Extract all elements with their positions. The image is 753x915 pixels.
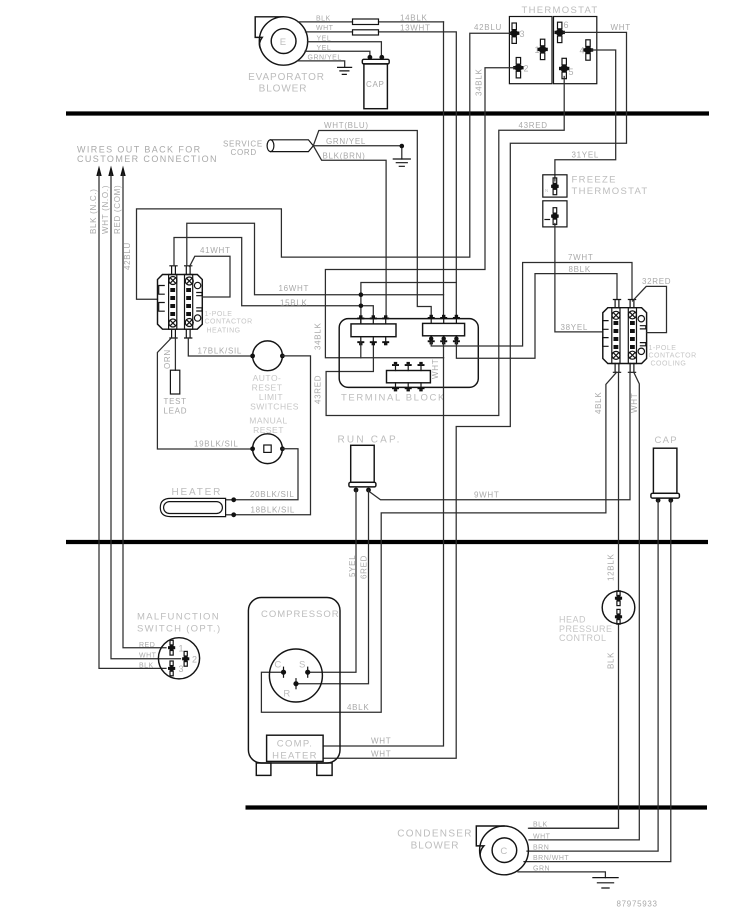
service cord bbox=[267, 140, 313, 152]
customer wire RED (COM) with arrow bbox=[113, 166, 166, 648]
malfunction terminal 2 bbox=[182, 651, 197, 666]
thermostat terminal 5 bbox=[559, 58, 574, 78]
wire GRN condenser blower to ground bbox=[518, 872, 605, 878]
malfunction switch S6 bbox=[158, 638, 199, 679]
svg-text:S: S bbox=[299, 660, 307, 671]
svg-text:14BLK: 14BLK bbox=[400, 13, 428, 22]
svg-text:BLK(BRN): BLK(BRN) bbox=[323, 152, 366, 161]
svg-text:HEATER: HEATER bbox=[172, 487, 223, 498]
freeze thermostat terminal lower bbox=[545, 208, 559, 225]
wire 42BLU thermostat T3 to heating contactor bbox=[137, 33, 511, 299]
wire 5YEL run cap to compressor S bbox=[310, 490, 356, 672]
svg-text:TEST: TEST bbox=[164, 397, 187, 406]
terminal block enclosure bbox=[339, 319, 478, 388]
svg-text:CORD: CORD bbox=[231, 148, 257, 157]
svg-text:8BLK: 8BLK bbox=[569, 265, 591, 274]
svg-text:E: E bbox=[280, 37, 288, 48]
compressor leg left bbox=[256, 763, 271, 775]
contactor K1 top pin right bbox=[185, 266, 192, 275]
svg-text:WIRES OUT BACK FOR: WIRES OUT BACK FOR bbox=[77, 144, 202, 154]
junction dot 15BLK bbox=[359, 304, 364, 309]
wire 43RED thermostat T5 to terminal block bbox=[326, 77, 564, 416]
svg-text:RED (COM): RED (COM) bbox=[113, 185, 122, 234]
limit switch manual-reset S4 bbox=[250, 434, 285, 464]
svg-text:31YEL: 31YEL bbox=[572, 151, 600, 160]
label HEAD PRESSURE CONTROL bbox=[559, 615, 613, 644]
contactor K1 top pin left bbox=[170, 266, 177, 275]
svg-text:LIMIT: LIMIT bbox=[259, 392, 283, 402]
svg-text:CONTROL: CONTROL bbox=[559, 633, 607, 643]
svg-text:1: 1 bbox=[179, 644, 184, 654]
junction dot heater lower bbox=[231, 512, 236, 517]
bus line top bbox=[66, 111, 709, 115]
svg-text:15BLK: 15BLK bbox=[280, 298, 308, 307]
svg-text:RED: RED bbox=[139, 642, 155, 649]
svg-text:AUTO-: AUTO- bbox=[253, 373, 282, 383]
run capacitor C2 bbox=[349, 445, 376, 487]
terminal dot run cap left bbox=[354, 488, 359, 493]
svg-text:SWITCH (OPT.): SWITCH (OPT.) bbox=[137, 624, 221, 635]
svg-text:LEAD: LEAD bbox=[164, 407, 188, 416]
svg-text:BLOWER: BLOWER bbox=[411, 841, 460, 852]
svg-text:THERMOSTAT: THERMOSTAT bbox=[522, 5, 599, 16]
wire GRN/YEL to ground bbox=[298, 61, 345, 67]
svg-text:WHT: WHT bbox=[371, 749, 391, 758]
svg-text:YEL: YEL bbox=[317, 35, 332, 42]
svg-text:6: 6 bbox=[564, 20, 569, 30]
wire GRN/YEL service cord to ground bbox=[313, 146, 402, 159]
svg-text:MALFUNCTION: MALFUNCTION bbox=[137, 612, 220, 623]
wire BLK evaporator bbox=[298, 21, 444, 23]
label AUTO-RESET bbox=[249, 373, 299, 435]
terminal strip TB2 right bbox=[423, 315, 465, 345]
svg-text:THERMOSTAT: THERMOSTAT bbox=[572, 186, 649, 197]
capacitor CAP (condenser) bbox=[651, 435, 680, 498]
wire WHT thermostat T6 long run to comp heater bbox=[323, 32, 626, 758]
svg-text:BLK: BLK bbox=[316, 16, 331, 23]
junction dot right strip screw1 bbox=[429, 337, 433, 341]
svg-text:RESET: RESET bbox=[252, 383, 283, 393]
svg-text:CAP: CAP bbox=[655, 435, 678, 446]
wire 14BLK vertical bbox=[443, 22, 445, 317]
svg-text:1-POLE: 1-POLE bbox=[649, 345, 677, 352]
label EVAPORATOR BLOWER bbox=[248, 72, 325, 95]
wire 16WHT contactor pin to terminal block bbox=[187, 223, 444, 294]
junction dot service ground bbox=[400, 144, 405, 149]
svg-text:5YEL: 5YEL bbox=[348, 555, 357, 577]
svg-text:COMP.: COMP. bbox=[277, 739, 313, 750]
svg-text:20BLK/SIL: 20BLK/SIL bbox=[250, 490, 295, 499]
junction dot 16WHT bbox=[359, 292, 364, 297]
terminal dot cap right post bbox=[379, 55, 384, 60]
terminal dot condenser cap left bbox=[656, 498, 661, 503]
contactor K2 bottom pin right bbox=[628, 364, 635, 373]
svg-text:2: 2 bbox=[524, 63, 529, 73]
svg-text:WHT: WHT bbox=[431, 359, 440, 379]
svg-text:3: 3 bbox=[179, 664, 184, 674]
svg-text:GRN/YEL: GRN/YEL bbox=[326, 137, 366, 146]
wire 17BLK/SIL contactor to auto reset bbox=[188, 338, 252, 356]
ground symbol service cord bbox=[393, 159, 410, 166]
contactor K2 cooling bbox=[603, 308, 647, 364]
wire 15BLK contactor pin to terminal block bbox=[174, 238, 373, 319]
svg-text:BRN/WHT: BRN/WHT bbox=[533, 855, 569, 862]
svg-text:TERMINAL BLOCK: TERMINAL BLOCK bbox=[341, 393, 446, 404]
wire 6RED run cap to compressor R bbox=[299, 490, 369, 684]
thermostat terminal 4 bbox=[580, 40, 594, 60]
wire YEL upper to cap bbox=[308, 42, 382, 56]
compressor leg right bbox=[317, 763, 332, 775]
svg-text:HEATING: HEATING bbox=[207, 328, 241, 335]
terminal strip TB1 left bbox=[351, 315, 396, 345]
contactor K2 bottom pin left bbox=[613, 364, 620, 373]
contactor K1 bottom pin left bbox=[170, 329, 177, 338]
svg-text:FREEZE: FREEZE bbox=[572, 175, 617, 186]
terminal dot run cap right bbox=[366, 488, 371, 493]
svg-text:17BLK/SIL: 17BLK/SIL bbox=[198, 347, 243, 356]
wire WHT right strip to comp heater bbox=[323, 341, 443, 746]
thermostat terminal 6 bbox=[555, 20, 569, 43]
svg-text:42BLU: 42BLU bbox=[123, 242, 132, 270]
wire 38YEL freeze thermostat to cooling contactor bbox=[555, 224, 603, 332]
label wires out back for customer connection bbox=[77, 144, 218, 164]
terminal strip TB3 bottom bbox=[387, 362, 431, 392]
wire YEL lower to cap bbox=[305, 51, 370, 55]
svg-text:GRN/YEL: GRN/YEL bbox=[308, 55, 342, 62]
freeze thermostat terminal upper bbox=[545, 178, 559, 195]
comp heater R2 bbox=[267, 735, 324, 761]
customer wire WHT (N.O.) with arrow bbox=[101, 166, 180, 659]
customer wire BLK (N.C.) with arrow bbox=[89, 166, 166, 669]
ground symbol condenser bbox=[593, 878, 618, 888]
labels condenser wires bbox=[533, 822, 569, 873]
svg-text:RUN CAP.: RUN CAP. bbox=[338, 435, 402, 446]
head pressure control S5 bbox=[602, 591, 635, 624]
label MALFUNCTION SWITCH (OPT.) bbox=[137, 612, 221, 635]
wire labels evaporator bbox=[308, 13, 431, 61]
wire WHT evaporator (13WHT) bbox=[306, 32, 457, 317]
junction dot right strip screw3 bbox=[454, 337, 458, 341]
compressor terminal C bbox=[274, 660, 286, 678]
svg-text:WHT: WHT bbox=[533, 833, 551, 840]
svg-text:CONTACTOR: CONTACTOR bbox=[205, 319, 253, 326]
wire BLK condenser blower bbox=[529, 827, 619, 829]
svg-text:7WHT: 7WHT bbox=[568, 253, 593, 262]
thermostat terminal 1 bbox=[535, 39, 548, 59]
bus line middle bbox=[66, 540, 708, 544]
svg-text:WHT: WHT bbox=[316, 25, 334, 32]
svg-text:34BLK: 34BLK bbox=[475, 68, 484, 96]
thermostat terminal 3 bbox=[509, 23, 525, 43]
svg-text:4: 4 bbox=[580, 46, 585, 56]
wire 8BLK right strip to cooling contactor bbox=[456, 274, 617, 359]
svg-text:34BLK: 34BLK bbox=[314, 322, 323, 350]
junction dot heater upper bbox=[231, 497, 236, 502]
contactor K2 top pin left bbox=[613, 300, 620, 308]
svg-text:GRN: GRN bbox=[533, 865, 550, 872]
svg-text:43RED: 43RED bbox=[314, 375, 323, 404]
wire 20BLK/SIL manual reset to heater bbox=[234, 449, 298, 500]
svg-text:C: C bbox=[500, 846, 508, 857]
svg-text:N: N bbox=[545, 188, 549, 193]
svg-text:CAP: CAP bbox=[366, 80, 385, 89]
wire terminal block strip riser bbox=[361, 283, 456, 324]
label 1-POLE CONTACTOR COOLING bbox=[649, 345, 697, 368]
fuse link F1 bbox=[353, 19, 379, 25]
svg-text:YEL: YEL bbox=[317, 45, 332, 52]
svg-text:HEATER: HEATER bbox=[272, 751, 318, 762]
svg-text:BLK: BLK bbox=[607, 652, 616, 669]
svg-text:WHT(BLU): WHT(BLU) bbox=[324, 121, 369, 130]
svg-text:41WHT: 41WHT bbox=[200, 246, 231, 255]
svg-text:5: 5 bbox=[569, 67, 574, 77]
svg-text:19BLK/SIL: 19BLK/SIL bbox=[194, 439, 239, 448]
svg-text:4BLK: 4BLK bbox=[594, 392, 603, 414]
svg-text:WHT: WHT bbox=[371, 737, 391, 746]
bus line bottom bbox=[246, 805, 708, 809]
wire 31YEL thermostat T4 to freeze thermostat bbox=[555, 50, 616, 181]
svg-text:SWITCHES: SWITCHES bbox=[250, 402, 299, 412]
wire BLK(BRN) service cord to terminal block bbox=[313, 146, 386, 319]
svg-text:WHT: WHT bbox=[611, 23, 631, 32]
capacitor CAP (evaporator) bbox=[362, 59, 389, 108]
svg-text:32RED: 32RED bbox=[642, 277, 671, 286]
svg-text:12BLK: 12BLK bbox=[607, 553, 616, 581]
svg-text:BRN: BRN bbox=[533, 845, 549, 852]
svg-text:R: R bbox=[283, 689, 291, 700]
svg-text:9WHT: 9WHT bbox=[474, 490, 499, 499]
svg-text:18BLK/SIL: 18BLK/SIL bbox=[251, 506, 296, 515]
svg-text:WHT: WHT bbox=[630, 393, 639, 413]
svg-text:ORN: ORN bbox=[163, 349, 172, 369]
malfunction terminal 3 bbox=[168, 661, 184, 676]
svg-text:CONDENSER: CONDENSER bbox=[397, 829, 473, 840]
wire BRN/WHT condenser cap to blower bbox=[524, 500, 671, 861]
wire BLK head pressure chain bbox=[530, 372, 619, 828]
svg-text:EVAPORATOR: EVAPORATOR bbox=[248, 72, 325, 83]
ground symbol evaporator bbox=[338, 67, 352, 74]
freeze thermostat S2 bbox=[543, 175, 649, 227]
svg-text:CONTACTOR: CONTACTOR bbox=[649, 353, 697, 360]
wire 7WHT right strip to cooling contactor bbox=[431, 263, 632, 347]
wire 9WHT cooling contactor to run cap bbox=[369, 372, 631, 500]
svg-text:BLK (N.C.): BLK (N.C.) bbox=[89, 188, 98, 234]
fuse link F2 bbox=[353, 30, 379, 35]
wire 32RED contactor loop bbox=[633, 286, 667, 332]
malfunction terminal 1 bbox=[168, 640, 184, 655]
svg-text:3: 3 bbox=[520, 29, 525, 39]
svg-text:C: C bbox=[274, 660, 282, 671]
contactor K2 top pin right bbox=[628, 300, 635, 308]
wire left strip screw1 bottom bbox=[360, 341, 362, 358]
heater element R1 bbox=[160, 498, 231, 516]
svg-text:43RED: 43RED bbox=[519, 121, 548, 130]
svg-text:WHT: WHT bbox=[139, 653, 157, 660]
contactor K1 heating bbox=[158, 275, 203, 330]
svg-text:6RED: 6RED bbox=[360, 555, 369, 579]
terminal dot condenser cap right bbox=[668, 498, 673, 503]
svg-text:COOLING: COOLING bbox=[651, 361, 687, 368]
svg-text:38YEL: 38YEL bbox=[561, 323, 589, 332]
svg-text:1-POLE: 1-POLE bbox=[205, 311, 233, 318]
wire 4BLK cooling contactor to compressor C bbox=[261, 372, 616, 712]
wire 41WHT contactor loop bbox=[190, 256, 231, 297]
svg-text:16WHT: 16WHT bbox=[279, 284, 310, 293]
compressor M2 bbox=[248, 598, 340, 764]
svg-text:87975933: 87975933 bbox=[617, 900, 658, 909]
compressor terminal R bbox=[283, 679, 298, 700]
wire WHT cooling contactor to condenser blower bbox=[529, 372, 639, 840]
svg-text:BLOWER: BLOWER bbox=[259, 84, 308, 95]
contactor K1 bottom pin right bbox=[185, 329, 192, 338]
svg-text:WHT (N.O.): WHT (N.O.) bbox=[101, 185, 110, 234]
wire 19BLK/SIL contactor to manual reset bbox=[157, 338, 252, 449]
limit switch auto-reset S3 bbox=[250, 341, 285, 371]
svg-text:1: 1 bbox=[535, 45, 540, 55]
svg-text:COMPRESSOR: COMPRESSOR bbox=[261, 609, 340, 620]
wire BRN condenser cap to blower bbox=[527, 500, 658, 851]
compressor terminal S bbox=[299, 660, 310, 678]
svg-text:BLK: BLK bbox=[533, 822, 548, 829]
condenser blower M3 bbox=[476, 826, 528, 875]
svg-text:CUSTOMER CONNECTION: CUSTOMER CONNECTION bbox=[77, 154, 218, 164]
wire ORN to test lead bbox=[174, 338, 176, 370]
evaporator blower M1 bbox=[255, 17, 307, 65]
svg-text:13WHT: 13WHT bbox=[400, 23, 431, 32]
terminal dot cap left post bbox=[368, 55, 373, 60]
thermostat TS1 bbox=[509, 5, 598, 84]
svg-text:MANUAL: MANUAL bbox=[249, 416, 287, 426]
label CONDENSER BLOWER bbox=[397, 829, 473, 852]
label TEST LEAD bbox=[164, 397, 188, 416]
svg-text:BLK: BLK bbox=[139, 662, 154, 669]
svg-text:4BLK: 4BLK bbox=[347, 703, 369, 712]
wire WHT(BLU) service cord to terminal block bbox=[313, 131, 431, 319]
thermostat terminal 2 bbox=[513, 58, 528, 78]
test lead bbox=[170, 370, 179, 394]
label SERVICE CORD bbox=[223, 140, 263, 158]
junction dot right strip screw2 bbox=[442, 337, 446, 341]
wire 18BLK/SIL auto reset to heater bbox=[234, 356, 311, 515]
wire 34BLK thermostat T2 to terminal block bbox=[325, 68, 514, 358]
svg-text:42BLU: 42BLU bbox=[474, 23, 502, 32]
label 1-POLE CONTACTOR HEATING bbox=[205, 311, 253, 335]
svg-text:2: 2 bbox=[192, 655, 197, 665]
